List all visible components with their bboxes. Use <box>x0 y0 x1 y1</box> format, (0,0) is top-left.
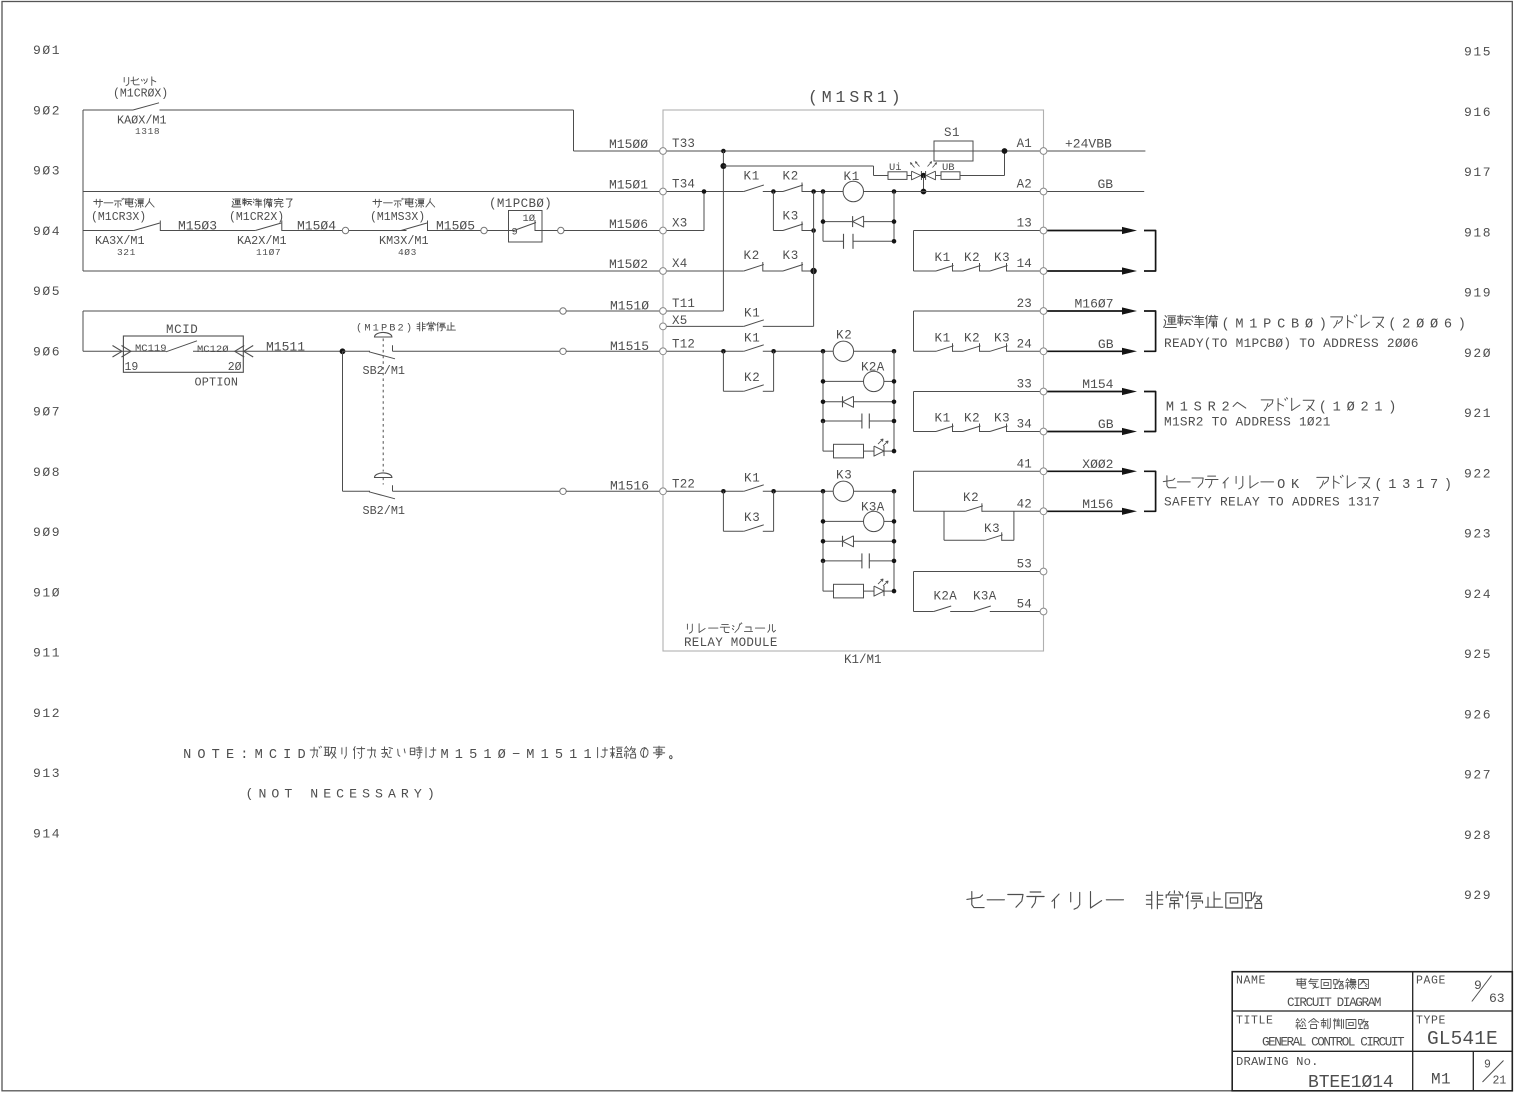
svg-text:(: ( <box>356 323 362 335</box>
svg-text:(: ( <box>246 787 254 802</box>
arrows LED left <box>910 163 914 168</box>
svg-text:X5: X5 <box>672 314 687 328</box>
svg-text:M1SR2 TO ADDRESS 1Ø21: M1SR2 TO ADDRESS 1Ø21 <box>1164 415 1331 430</box>
svg-text:(M1MS3X): (M1MS3X) <box>370 211 425 224</box>
svg-text:M1516: M1516 <box>610 479 649 494</box>
junction indicator branch <box>720 163 726 169</box>
svg-text:(M1CR3X): (M1CR3X) <box>91 211 146 224</box>
svg-text:1: 1 <box>1388 478 1396 493</box>
label サーボ電源入 <box>94 201 103 203</box>
right terminal circles <box>1040 148 1047 155</box>
output contact group 33/34 <box>913 392 915 432</box>
svg-text:E: E <box>323 787 331 802</box>
svg-text:T33: T33 <box>672 137 695 151</box>
svg-text:53: 53 <box>1017 558 1032 572</box>
mushroom actuator bottom <box>375 473 392 478</box>
svg-text:): ) <box>1319 318 1327 333</box>
label 運転準備完了 <box>233 199 234 200</box>
svg-text:1: 1 <box>1374 401 1382 416</box>
svg-text:9Ø1: 9Ø1 <box>33 43 61 58</box>
svg-text:2: 2 <box>1360 401 1368 416</box>
svg-text:11Ø7: 11Ø7 <box>256 247 281 258</box>
svg-text:M15Ø1: M15Ø1 <box>609 178 648 193</box>
svg-text:924: 924 <box>1464 587 1492 602</box>
output contact group 53/54 <box>913 572 915 612</box>
svg-text:K3: K3 <box>783 210 800 224</box>
svg-text:O: O <box>197 748 205 763</box>
resistor UB <box>941 172 960 180</box>
svg-text:): ) <box>891 88 901 107</box>
svg-text:C: C <box>336 787 344 802</box>
svg-text:41: 41 <box>1017 458 1032 472</box>
svg-text:24: 24 <box>1017 338 1032 352</box>
svg-text:E: E <box>226 748 234 763</box>
svg-text:M151Ø: M151Ø <box>610 299 649 314</box>
svg-text:Ø: Ø <box>1347 401 1355 416</box>
output contact group 13/14 <box>913 231 915 272</box>
svg-text:9Ø4: 9Ø4 <box>33 224 61 239</box>
svg-text:T12: T12 <box>672 338 695 352</box>
svg-text:OPTION: OPTION <box>195 376 239 390</box>
output contact group 23/24 <box>913 311 915 351</box>
K2 diode <box>823 401 843 403</box>
svg-text:K3: K3 <box>994 331 1010 345</box>
wire: T33 to A1 +24VBB rail <box>663 150 1044 152</box>
svg-text:READY(TO M1PCBØ) TO ADDRESS 2Ø: READY(TO M1PCBØ) TO ADDRESS 2ØØ6 <box>1164 336 1419 351</box>
relay coil K2 <box>821 349 826 354</box>
svg-text:912: 912 <box>33 706 61 721</box>
svg-text:T22: T22 <box>672 478 695 492</box>
output arrow line <box>1047 230 1128 232</box>
svg-text:K1: K1 <box>935 251 951 265</box>
svg-text:M15Ø3: M15Ø3 <box>178 219 217 234</box>
svg-text:14: 14 <box>1017 257 1032 271</box>
wire: corner down to T33 <box>573 110 575 151</box>
svg-text:33: 33 <box>1017 378 1032 392</box>
svg-text:K3: K3 <box>744 511 761 525</box>
output arrow line <box>1047 270 1128 272</box>
svg-text:SAFETY RELAY TO ADDRES 1317: SAFETY RELAY TO ADDRES 1317 <box>1164 495 1380 510</box>
contact KA3X/M1 (M1CR3X) <box>134 223 160 231</box>
contact K1 on T34 <box>744 185 764 192</box>
svg-text:K3: K3 <box>994 251 1010 265</box>
svg-text:KA2X/M1: KA2X/M1 <box>237 234 287 248</box>
svg-text:B: B <box>389 323 395 335</box>
svg-text:9Ø3: 9Ø3 <box>33 164 61 179</box>
emergency stop button SB2/M1 on T12 <box>343 350 371 352</box>
K3 parallel loop 41/42 <box>943 511 945 540</box>
dashed operator linkage <box>382 339 384 472</box>
label サーボ電源入 2 <box>373 201 382 203</box>
svg-text:GB: GB <box>1098 337 1114 352</box>
svg-text:GL541E: GL541E <box>1427 1028 1498 1050</box>
left post MCID bypass <box>82 311 84 351</box>
svg-text:(: ( <box>808 88 818 107</box>
svg-text:TYPE: TYPE <box>1416 1015 1446 1028</box>
svg-text:O: O <box>1277 478 1285 493</box>
wire: M1511/T12 row left part <box>83 350 166 352</box>
svg-text:P: P <box>381 323 387 335</box>
resistor Ui <box>888 172 907 180</box>
svg-text:1: 1 <box>541 748 549 763</box>
svg-text:TITLE: TITLE <box>1236 1015 1274 1028</box>
svg-text:3: 3 <box>1402 478 1410 493</box>
contact KA0X/M1 (M1CR0X reset) <box>133 103 159 110</box>
svg-text:(M1CRØX): (M1CRØX) <box>113 88 168 101</box>
vertical wire T34-X5 <box>813 192 815 327</box>
svg-text:A: A <box>388 787 396 802</box>
svg-text:X4: X4 <box>672 257 687 271</box>
svg-text:M15Ø4: M15Ø4 <box>297 219 336 234</box>
svg-text:911: 911 <box>33 646 61 661</box>
svg-text:−: − <box>512 748 520 763</box>
emergency stop button SB2/M1 on T22 <box>343 490 371 492</box>
svg-text:1: 1 <box>455 748 463 763</box>
svg-text:13: 13 <box>1017 217 1032 231</box>
svg-text:R: R <box>863 88 873 107</box>
svg-text:918: 918 <box>1464 225 1492 240</box>
svg-text:+24VBB: +24VBB <box>1065 137 1112 152</box>
output arrow line <box>1047 431 1128 433</box>
svg-text:9Ø8: 9Ø8 <box>33 465 61 480</box>
svg-text:K3: K3 <box>783 249 800 263</box>
svg-text:N: N <box>310 787 318 802</box>
wire: M1510/T11 row <box>83 310 560 312</box>
K1 coil snubber: flyback diode <box>822 192 824 242</box>
svg-text:DRAWING No.: DRAWING No. <box>1236 1055 1319 1069</box>
svg-text:Ø: Ø <box>1416 318 1424 333</box>
connector circle row904 b <box>481 227 487 233</box>
wire: row 904 M1503 segment <box>83 230 134 232</box>
svg-text:Y: Y <box>414 787 422 802</box>
svg-text:M: M <box>1235 318 1243 333</box>
destination bracket <box>1144 231 1156 272</box>
svg-text:K3A: K3A <box>861 501 885 515</box>
svg-text:UB: UB <box>942 162 955 174</box>
svg-text:K1: K1 <box>744 472 761 486</box>
svg-text:GB: GB <box>1098 417 1114 432</box>
svg-text:M15Ø5: M15Ø5 <box>436 219 475 234</box>
svg-text:(: ( <box>1374 478 1382 493</box>
wire: row 902 reset line <box>83 109 133 111</box>
svg-text:K2A: K2A <box>934 590 958 604</box>
svg-text:9: 9 <box>1474 978 1482 993</box>
svg-text:M15Ø6: M15Ø6 <box>609 217 648 232</box>
arrows LED right <box>928 162 932 167</box>
output contact group 41/42 <box>913 471 915 511</box>
svg-text:R: R <box>401 787 409 802</box>
svg-text:1: 1 <box>373 323 379 335</box>
output arrow line <box>1047 510 1128 512</box>
mushroom actuator top <box>375 332 392 337</box>
svg-text:C: C <box>269 748 277 763</box>
label リレーモジュール <box>686 624 688 629</box>
svg-text:SB2/M1: SB2/M1 <box>363 364 405 378</box>
svg-text:916: 916 <box>1464 105 1492 120</box>
svg-text:42: 42 <box>1017 498 1032 512</box>
svg-text:917: 917 <box>1464 165 1492 180</box>
svg-text:4Ø3: 4Ø3 <box>398 247 417 258</box>
svg-text:1: 1 <box>1249 318 1257 333</box>
svg-text:91Ø: 91Ø <box>33 585 61 600</box>
main title セーフティリレー 非常停止回路 <box>972 892 984 908</box>
svg-text:2: 2 <box>398 323 404 335</box>
svg-text::: : <box>240 748 248 763</box>
svg-text:(: ( <box>1319 401 1327 416</box>
svg-text:925: 925 <box>1464 647 1492 662</box>
svg-text:KM3X/M1: KM3X/M1 <box>379 234 429 248</box>
svg-text:9Ø6: 9Ø6 <box>33 344 61 359</box>
connector chevrons left <box>113 346 123 358</box>
X4 internal wire with K2 K3 contacts <box>663 270 744 272</box>
svg-text:913: 913 <box>33 766 61 781</box>
left terminal circles <box>660 148 667 155</box>
title block frame <box>1232 972 1512 1091</box>
svg-text:S: S <box>849 88 859 107</box>
svg-text:K2: K2 <box>783 170 800 184</box>
K2 parallel bracket under T12 <box>722 351 724 391</box>
svg-text:): ) <box>1458 318 1466 333</box>
svg-text:N: N <box>258 787 266 802</box>
K3 capacitor <box>823 560 862 562</box>
svg-text:(M1CR2X): (M1CR2X) <box>229 211 284 224</box>
svg-text:2: 2 <box>1221 401 1229 416</box>
svg-text:921: 921 <box>1464 406 1492 421</box>
svg-text:T: T <box>284 787 292 802</box>
svg-text:Ui: Ui <box>889 162 902 174</box>
svg-text:RELAY MODULE: RELAY MODULE <box>684 636 778 650</box>
svg-text:K2: K2 <box>744 371 761 385</box>
svg-text:9Ø2: 9Ø2 <box>33 103 61 118</box>
svg-text:GENERAL CONTROL CIRCUIT: GENERAL CONTROL CIRCUIT <box>1262 1036 1405 1050</box>
svg-text:K1: K1 <box>744 170 761 184</box>
output arrow line <box>1047 310 1128 312</box>
label リセット <box>123 77 125 82</box>
svg-text:(: ( <box>1388 318 1396 333</box>
wire: T34 to A2 GB rail <box>663 191 744 193</box>
relay module M1SR1 box <box>663 110 1044 651</box>
svg-text:BTEE1Ø14: BTEE1Ø14 <box>1308 1073 1394 1093</box>
connector chevrons right <box>244 346 254 358</box>
svg-text:E: E <box>349 787 357 802</box>
svg-text:(M1PCBØ): (M1PCBØ) <box>489 197 552 211</box>
contact K2 on T34 <box>783 185 803 192</box>
svg-text:K2: K2 <box>964 412 980 426</box>
junction T33 branch <box>721 149 726 154</box>
wire: M1502/X4 row <box>83 270 663 272</box>
svg-text:): ) <box>427 787 435 802</box>
svg-text:K1: K1 <box>744 307 761 321</box>
svg-text:926: 926 <box>1464 707 1492 722</box>
svg-text:MC12Ø: MC12Ø <box>197 344 229 356</box>
T11 internal wire <box>663 310 723 312</box>
svg-text:K2: K2 <box>836 329 853 343</box>
destination bracket <box>1144 392 1156 432</box>
svg-text:1: 1 <box>1416 478 1424 493</box>
MCID bridging contact MC119-MC120 <box>166 341 197 352</box>
svg-text:A2: A2 <box>1017 178 1032 192</box>
svg-text:923: 923 <box>1464 527 1492 542</box>
svg-text:K2: K2 <box>964 331 980 345</box>
MCID box <box>123 336 243 372</box>
svg-text:R: R <box>1208 401 1216 416</box>
+24VBB rail <box>1044 150 1146 152</box>
svg-text:T34: T34 <box>672 178 695 192</box>
svg-text:PAGE: PAGE <box>1416 975 1446 988</box>
svg-text:K: K <box>1291 478 1300 493</box>
svg-text:S1: S1 <box>944 126 960 140</box>
relay coil K3 <box>821 489 826 494</box>
svg-text:K2: K2 <box>963 491 979 505</box>
junction dot M1511/SB2 <box>340 348 346 354</box>
svg-text:K3: K3 <box>994 412 1010 426</box>
svg-text:9: 9 <box>1484 1059 1491 1072</box>
contact KA2X/M1 (M1CR2X) <box>255 223 281 231</box>
svg-text:S: S <box>1194 401 1202 416</box>
svg-text:C: C <box>1277 318 1285 333</box>
svg-text:5: 5 <box>555 748 563 763</box>
output arrow line <box>1047 470 1128 472</box>
GB rail <box>1044 191 1145 193</box>
svg-text:MCID: MCID <box>166 323 198 337</box>
K2 indicator resistor + LED <box>822 421 824 451</box>
svg-text:M15Ø2: M15Ø2 <box>609 257 648 272</box>
svg-text:K1: K1 <box>744 332 761 346</box>
svg-text:K2: K2 <box>744 249 761 263</box>
svg-text:K3A: K3A <box>973 590 997 604</box>
K3 parallel bracket under T22 <box>722 491 724 531</box>
svg-text:K1/M1: K1/M1 <box>844 653 882 667</box>
svg-text:D: D <box>297 748 305 763</box>
svg-text:XØØ2: XØØ2 <box>1082 457 1113 472</box>
svg-text:SB2/M1: SB2/M1 <box>363 504 405 518</box>
svg-text:1: 1 <box>483 748 491 763</box>
svg-text:9Ø7: 9Ø7 <box>33 405 61 420</box>
svg-text:K2A: K2A <box>861 361 885 375</box>
svg-text:M: M <box>255 748 263 763</box>
LED indicator pair <box>912 171 921 180</box>
connector circle row904 a <box>342 227 348 233</box>
destination bracket <box>1144 311 1156 351</box>
svg-text:T: T <box>212 748 220 763</box>
svg-text:M156: M156 <box>1082 497 1113 512</box>
wire LED center to A2 <box>923 176 925 192</box>
svg-text:A1: A1 <box>1017 137 1032 151</box>
wire + connector circle after box <box>542 230 558 232</box>
svg-text:S: S <box>362 787 370 802</box>
contact KM3X/M1 (M1MS3X) <box>401 223 427 231</box>
svg-text:23: 23 <box>1017 297 1032 311</box>
svg-text:M1515: M1515 <box>610 339 649 354</box>
svg-text:Ø: Ø <box>498 748 506 763</box>
svg-text:X3: X3 <box>672 217 687 231</box>
K3 aux group verticals <box>822 491 824 591</box>
X3 internal wire up to T34 <box>663 230 704 232</box>
svg-text:K2: K2 <box>964 251 980 265</box>
svg-text:M16Ø7: M16Ø7 <box>1074 297 1113 312</box>
svg-text:9: 9 <box>512 227 518 239</box>
svg-text:K1: K1 <box>844 170 861 184</box>
svg-text:M: M <box>440 748 448 763</box>
svg-text:K3: K3 <box>984 522 1000 536</box>
svg-text:2: 2 <box>1402 318 1410 333</box>
svg-text:1: 1 <box>583 748 591 763</box>
svg-text:M1511: M1511 <box>266 340 305 355</box>
svg-text:Ø: Ø <box>1305 318 1313 333</box>
svg-text:N: N <box>183 748 191 763</box>
svg-text:19: 19 <box>125 361 139 374</box>
svg-text:M: M <box>822 88 832 107</box>
K3 diode <box>823 540 843 542</box>
svg-text:K3: K3 <box>836 469 853 483</box>
S1 fuse box <box>934 141 973 161</box>
svg-text:I: I <box>283 748 291 763</box>
svg-text:O: O <box>271 787 279 802</box>
svg-text:919: 919 <box>1464 286 1492 301</box>
relay coil K3A <box>823 520 864 522</box>
svg-text:54: 54 <box>1017 598 1032 612</box>
svg-text:1Ø: 1Ø <box>523 213 536 225</box>
svg-text:321: 321 <box>117 247 136 258</box>
svg-text:M: M <box>1166 401 1174 416</box>
svg-text:M154: M154 <box>1082 377 1113 392</box>
svg-text:P: P <box>1263 318 1271 333</box>
svg-text:T11: T11 <box>672 297 695 311</box>
svg-text:KA3X/M1: KA3X/M1 <box>95 234 145 248</box>
svg-text:9Ø5: 9Ø5 <box>33 284 61 299</box>
svg-text:MC119: MC119 <box>135 343 167 355</box>
indicator branch wire <box>723 165 873 167</box>
svg-text:K1: K1 <box>935 412 951 426</box>
svg-text:M1: M1 <box>1431 1071 1451 1089</box>
svg-text:9Ø9: 9Ø9 <box>33 525 61 540</box>
relay coil K2A <box>823 380 864 382</box>
svg-text:922: 922 <box>1464 466 1492 481</box>
svg-text:K1: K1 <box>935 331 951 345</box>
relay coil K1 <box>843 181 863 201</box>
K3 indicator resistor + LED <box>822 561 824 591</box>
svg-text:CIRCUIT DIAGRAM: CIRCUIT DIAGRAM <box>1287 996 1381 1010</box>
svg-text:7: 7 <box>1430 478 1438 493</box>
svg-text:5: 5 <box>469 748 477 763</box>
T22 internal: K1 contact with K3 parallel <box>663 490 744 492</box>
destination bracket <box>1144 471 1156 511</box>
svg-text:92Ø: 92Ø <box>1464 346 1492 361</box>
svg-text:914: 914 <box>33 826 61 841</box>
annotation 運転準備 address 2006 <box>1165 316 1167 318</box>
svg-text:928: 928 <box>1464 828 1492 843</box>
output arrow line <box>1047 391 1128 393</box>
svg-text:NAME: NAME <box>1236 975 1266 988</box>
svg-text:63: 63 <box>1489 991 1505 1006</box>
T12 internal: K1 contact with K2 parallel <box>663 350 744 352</box>
svg-text:(: ( <box>1221 318 1229 333</box>
left ladder post <box>82 110 84 271</box>
svg-text:M: M <box>364 323 370 335</box>
annotation セーフティリレーOK address 1317 <box>1167 476 1176 488</box>
svg-text:1: 1 <box>877 88 887 107</box>
svg-text:1: 1 <box>569 748 577 763</box>
svg-text:34: 34 <box>1017 418 1032 432</box>
vertical wire to T22 branch <box>342 351 344 491</box>
svg-text:Ø: Ø <box>1430 318 1438 333</box>
svg-text:6: 6 <box>1444 318 1452 333</box>
output arrow line <box>1047 350 1128 352</box>
K2 aux group verticals <box>822 351 824 451</box>
K3 parallel branch (row X3) <box>772 192 774 231</box>
M1PCB0 terminal box with contact 9-10 <box>509 211 543 243</box>
svg-text:915: 915 <box>1464 45 1492 60</box>
